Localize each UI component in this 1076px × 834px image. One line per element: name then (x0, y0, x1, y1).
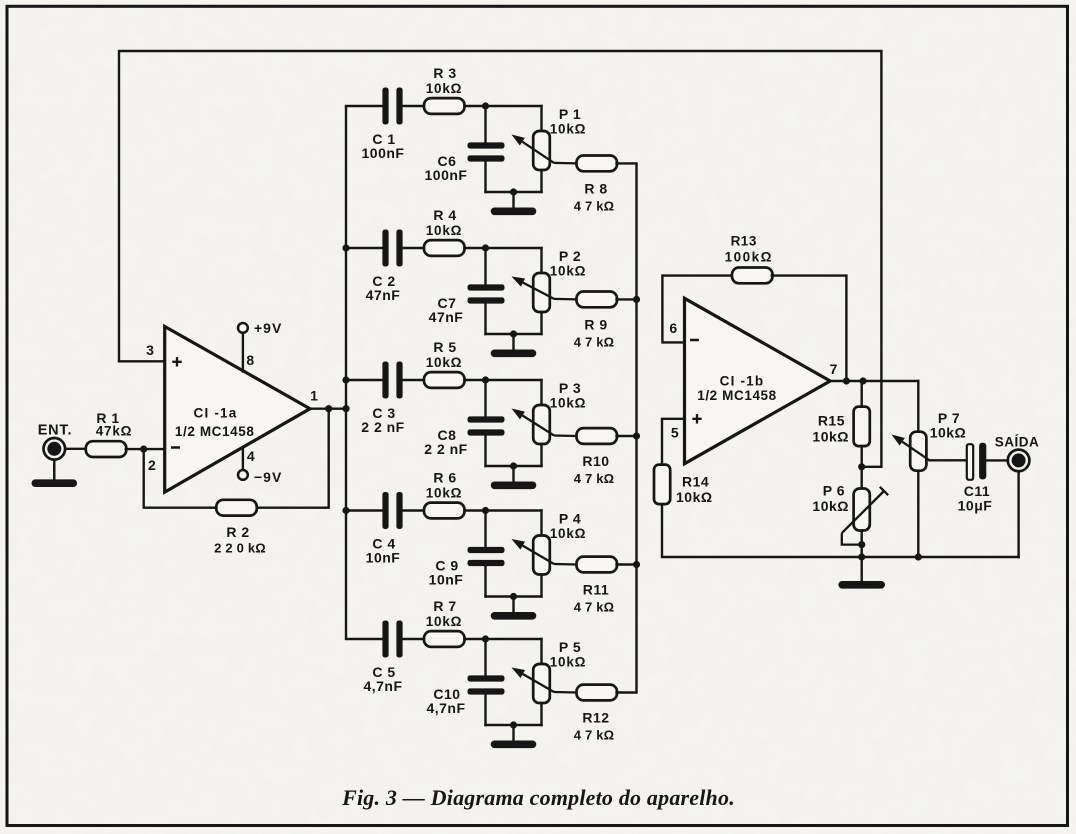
svg-text:47nF: 47nF (366, 287, 401, 303)
potentiometer P7 10k (910, 432, 926, 471)
svg-text:P 3: P 3 (559, 380, 581, 396)
svg-text:10kΩ: 10kΩ (426, 223, 463, 238)
resistor R2 220k (216, 500, 256, 516)
svg-text:−9V: −9V (254, 469, 282, 485)
wire jack to R1 (65, 448, 86, 450)
capacitor C6 100nF (468, 142, 505, 148)
svg-text:10kΩ: 10kΩ (550, 655, 587, 670)
ground stage4 (512, 597, 514, 613)
svg-text:4 7 kΩ: 4 7 kΩ (574, 334, 615, 349)
wire P6 wiper tie (842, 533, 862, 545)
wire C5 to R 7 (403, 638, 424, 640)
capacitor C7 47nF (468, 284, 505, 290)
svg-text:1/2 MC1458: 1/2 MC1458 (697, 388, 777, 403)
wire output CI-1b (830, 380, 918, 382)
svg-text:SAÍDA: SAÍDA (995, 434, 1040, 449)
wire stage1 bus to C1 (346, 105, 382, 107)
op-amp U2 CI-1b (685, 298, 831, 463)
node rail ground node (858, 553, 865, 560)
svg-text:P 4: P 4 (559, 511, 581, 527)
svg-text:4,7nF: 4,7nF (426, 700, 465, 716)
wire stage4 bottom loop (486, 595, 542, 597)
wire junction to C8 (484, 380, 486, 416)
wire stage3 bottom loop (486, 465, 542, 467)
resistor R13 100k (732, 268, 773, 284)
svg-text:R13: R13 (731, 234, 757, 249)
svg-text:+9V: +9V (254, 320, 282, 336)
wire pot P 4 bottom (540, 575, 542, 597)
svg-text:10kΩ: 10kΩ (812, 498, 849, 514)
svg-text:2 2 0 kΩ: 2 2 0 kΩ (214, 541, 266, 556)
node stage3 junction (482, 376, 489, 383)
node bus output (342, 405, 349, 412)
wire R 7 to pot top (465, 638, 542, 640)
node R15-P6 node (858, 463, 865, 470)
potentiometer P 2 10k (533, 273, 550, 312)
node bus R11 (633, 561, 640, 568)
node bus R9 (633, 296, 640, 303)
wire pot P 2 bottom (540, 312, 542, 334)
wire R11 to right bus (617, 563, 637, 565)
wire pin5 to R14 (662, 419, 685, 465)
svg-text:R14: R14 (682, 474, 709, 490)
wire jack sleeve to rail (1017, 471, 1019, 557)
wire junction to C10 (484, 639, 486, 675)
wire output to R15 (861, 381, 863, 407)
svg-text:P 2: P 2 (559, 248, 581, 264)
wire pin3 stub (119, 360, 165, 362)
node stage2 ground node (510, 330, 517, 337)
svg-text:R 4: R 4 (433, 207, 456, 223)
node stage1 ground node (510, 188, 517, 195)
svg-text:P 1: P 1 (559, 106, 581, 122)
svg-text:ENT.: ENT. (38, 423, 73, 439)
ground stage3 (512, 466, 514, 482)
node P7 ground node (915, 553, 922, 560)
wire pin2 to R2 (144, 449, 217, 508)
svg-text:100nF: 100nF (362, 145, 405, 161)
svg-text:4 7 kΩ: 4 7 kΩ (574, 198, 615, 213)
svg-text:10kΩ: 10kΩ (426, 486, 463, 501)
wire R 3 to pot top (465, 105, 542, 107)
svg-text:2 2 nF: 2 2 nF (424, 441, 467, 457)
wire C3 to R 5 (403, 379, 424, 381)
wire stage4 bus to C4 (346, 509, 382, 511)
svg-text:R10: R10 (582, 453, 609, 469)
svg-text:4: 4 (247, 448, 255, 464)
svg-text:8: 8 (246, 352, 254, 368)
svg-text:R11: R11 (583, 582, 609, 598)
wire junction to C 9 (484, 511, 486, 547)
svg-text:R12: R12 (582, 710, 609, 726)
svg-text:1/2 MC1458: 1/2 MC1458 (175, 424, 255, 439)
svg-text:R 7: R 7 (433, 598, 456, 614)
svg-text:10kΩ: 10kΩ (426, 614, 463, 629)
wire R 5 to pot top (465, 379, 542, 381)
wire jack to ground (53, 460, 55, 480)
wire P6 to rail (861, 531, 863, 558)
node stage1 junction (482, 102, 489, 109)
wire ground rail (662, 504, 1019, 557)
capacitor C4 10nF (382, 492, 388, 529)
svg-text:10μF: 10μF (958, 498, 993, 514)
wire R 4 to pot top (465, 247, 542, 249)
svg-text:10kΩ: 10kΩ (426, 355, 463, 370)
resistor R 5 10k (424, 372, 465, 388)
resistor R 4 10k (424, 240, 465, 256)
svg-text:CI -1a: CI -1a (194, 406, 238, 421)
wire R 9 to right bus (617, 298, 637, 300)
wire pot P 1 top (540, 106, 542, 131)
wire C7 to bottom loop (484, 304, 486, 334)
node stage5 junction (482, 635, 489, 642)
svg-text:P 5: P 5 (559, 639, 581, 655)
svg-text:10kΩ: 10kΩ (812, 429, 849, 445)
connector ENT (input jack) (44, 438, 66, 460)
wire pot P 2 top (540, 248, 542, 273)
node stage4 ground node (510, 593, 517, 600)
resistor R 6 10k (424, 503, 465, 519)
wire P7 to rail (917, 471, 919, 557)
svg-text:5: 5 (671, 424, 679, 440)
svg-text:4 7 kΩ: 4 7 kΩ (574, 471, 615, 486)
svg-text:47nF: 47nF (429, 309, 464, 325)
svg-text:1: 1 (310, 387, 318, 403)
svg-text:10kΩ: 10kΩ (426, 81, 463, 96)
node stage3 ground node (510, 462, 517, 469)
node stage2 junction (482, 244, 489, 251)
svg-text:4,7nF: 4,7nF (363, 678, 402, 694)
svg-text:100nF: 100nF (425, 167, 468, 183)
svg-text:R15: R15 (818, 413, 845, 429)
wire C11 to jack (986, 459, 1007, 461)
node bus stage4 (342, 507, 349, 514)
svg-text:7: 7 (830, 361, 838, 377)
ground output stage (861, 557, 863, 581)
svg-text:10nF: 10nF (366, 550, 401, 566)
capacitor C8 22nF (468, 416, 505, 422)
svg-text:R 3: R 3 (433, 65, 456, 81)
svg-text:10kΩ: 10kΩ (550, 122, 587, 137)
ground input jack (53, 464, 55, 480)
potentiometer P 1 10k (533, 131, 550, 170)
resistor R 9 47k (577, 292, 618, 308)
wire R13 to output (772, 276, 847, 381)
wire R1 to pin2 (126, 448, 165, 450)
potentiometer P6 10k (rheostat) (854, 489, 870, 531)
wire stage3 bus to C3 (346, 379, 382, 381)
potentiometer P 5 10k (533, 664, 550, 703)
svg-text:47kΩ: 47kΩ (96, 424, 133, 439)
resistor R11 47k (577, 557, 618, 573)
wire stage2 bottom loop (486, 333, 542, 335)
capacitor C3 22nF (382, 362, 388, 399)
svg-text:10kΩ: 10kΩ (550, 526, 587, 541)
capacitor C 9 10nF (468, 547, 505, 553)
svg-text:100kΩ: 100kΩ (725, 250, 773, 265)
node stage5 ground node (510, 721, 517, 728)
wire junction to C7 (484, 248, 486, 284)
wire R12 to right bus (617, 691, 637, 693)
resistor R 3 10k (424, 98, 465, 114)
wire pot P 5 bottom (540, 703, 542, 725)
node output CI-1a (325, 405, 332, 412)
ground stage5 (512, 725, 514, 741)
svg-text:4 7 kΩ: 4 7 kΩ (574, 728, 615, 743)
wire R15 to P6 (861, 446, 863, 489)
wire pot P 4 top (540, 511, 542, 536)
wire pin6 to R13 (662, 276, 732, 343)
svg-text:4 7 kΩ: 4 7 kΩ (574, 600, 615, 615)
svg-text:R 9: R 9 (584, 316, 607, 332)
svg-text:10kΩ: 10kΩ (550, 264, 587, 279)
capacitor C11 10uF (electrolytic) (967, 444, 973, 480)
node output CI-1b R15 tap (859, 377, 866, 384)
wire R 6 to pot top (465, 509, 542, 511)
wire P7 wiper to C11 (930, 459, 967, 461)
svg-text:2: 2 (148, 457, 156, 473)
resistor R1 47k (86, 441, 127, 457)
node bus stage3 (342, 376, 349, 383)
wire top feedback rail (119, 51, 881, 467)
wire output to P7 (917, 381, 919, 432)
wire pot P 3 top (540, 380, 542, 405)
wire C10 to bottom loop (484, 695, 486, 725)
node stage4 junction (482, 507, 489, 514)
capacitor C1 100nF (382, 88, 388, 125)
svg-text:R 5: R 5 (433, 339, 456, 355)
svg-text:2 2 nF: 2 2 nF (361, 419, 404, 435)
svg-text:R 8: R 8 (584, 180, 607, 196)
wire C1 to R 3 (403, 105, 424, 107)
resistor R 8 47k (577, 156, 618, 172)
resistor R14 10k (654, 465, 670, 505)
svg-text:10kΩ: 10kΩ (676, 489, 713, 505)
wire R 8 to right bus (617, 162, 637, 164)
potentiometer P 3 10k (533, 405, 550, 444)
wire C8 to bottom loop (484, 436, 486, 466)
svg-text:3: 3 (146, 342, 154, 358)
wire pot P 1 bottom (540, 170, 542, 192)
capacitor C10 4,7nF (468, 675, 505, 681)
svg-text:CI -1b: CI -1b (720, 374, 765, 389)
connector SAIDA (output jack) (1008, 450, 1030, 472)
ground stage2 (512, 334, 514, 350)
node bus R10 (633, 432, 640, 439)
svg-text:Fig. 3 — Diagrama completo do: Fig. 3 — Diagrama completo do aparelho. (341, 785, 735, 810)
wire stage2 bus to C2 (346, 247, 382, 249)
resistor R10 47k (577, 428, 618, 444)
node inverting input CI-1a (140, 446, 147, 453)
op-amp U1 CI-1a (165, 327, 310, 493)
node output CI-1b feedback (843, 377, 850, 384)
wire C2 to R 4 (403, 247, 424, 249)
wire stage1 bottom loop (486, 191, 542, 193)
svg-text:P 6: P 6 (823, 483, 845, 499)
wire C6 to bottom loop (484, 162, 486, 192)
wire stage5 bus to C5 (346, 638, 382, 640)
resistor R12 47k (577, 685, 618, 701)
svg-text:R 2: R 2 (226, 524, 249, 540)
wire C 9 to bottom loop (484, 566, 486, 596)
net left bus (CI-1a output to filters) (345, 106, 347, 639)
wire pot P 5 top (540, 639, 542, 664)
svg-text:10kΩ: 10kΩ (550, 396, 587, 411)
resistor R 7 10k (424, 631, 465, 647)
svg-text:10kΩ: 10kΩ (930, 425, 967, 441)
ground stage1 (512, 192, 514, 208)
potentiometer P 4 10k (533, 536, 550, 575)
net right bus (filters to CI-1b) (635, 163, 637, 692)
capacitor C2 47nF (382, 230, 388, 267)
resistor R15 10k (854, 407, 870, 447)
wire output CI-1a to bus (310, 408, 346, 410)
svg-text:R 6: R 6 (433, 470, 456, 486)
node P6 wiper tie (858, 541, 865, 548)
svg-text:6: 6 (669, 320, 677, 336)
node bus stage2 (342, 244, 349, 251)
wire junction to C6 (484, 106, 486, 142)
wire stage5 bottom loop (486, 724, 542, 726)
wire R10 to right bus (617, 435, 637, 437)
wire pin4 (242, 448, 244, 470)
wire R2 to output (257, 409, 329, 508)
wire pin8 (242, 333, 244, 372)
capacitor C5 4,7nF (382, 621, 388, 658)
wire C4 to R 6 (403, 509, 424, 511)
svg-text:10nF: 10nF (429, 572, 464, 588)
wire pot P 3 bottom (540, 444, 542, 466)
